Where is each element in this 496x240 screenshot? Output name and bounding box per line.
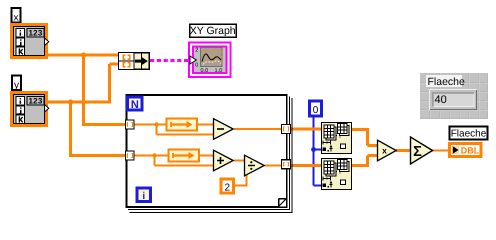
svg-text:XY Graph: XY Graph	[190, 25, 236, 37]
wire: sum to DBL terminal	[432, 150, 449, 152]
svg-text:0: 0	[313, 105, 319, 116]
panel: front panel fragment with grid	[420, 73, 488, 119]
wires: array wires out of loop (3px)	[290, 128, 410, 167]
tunnel: x auto-index (left row1)	[126, 120, 135, 129]
label: Flaeche on panel	[426, 75, 462, 87]
wire: Array Subset 2 to multiply bottom input	[352, 156, 377, 168]
wire: row2 out of loop into Array Subset 2	[290, 164, 321, 167]
svg-text:2: 2	[225, 183, 231, 194]
glyph: bundle arrow	[135, 60, 143, 63]
label: XY Graph	[190, 24, 237, 37]
tunnel: y auto-index (left row2)	[126, 151, 135, 160]
svg-text:x: x	[14, 13, 19, 24]
wire: cluster (magenta dashed) Bundle to XY Graph	[150, 59, 190, 62]
svg-text:x: x	[382, 146, 387, 156]
label: Flaeche terminal label	[450, 127, 488, 140]
tunnel: row1 output (right)	[282, 125, 291, 134]
wire: y array to riser	[48, 101, 111, 104]
junction: loop row1 dot	[154, 122, 158, 126]
wire: Array Subset 1 to multiply top input	[352, 128, 377, 146]
function: Array Subset 1	[322, 123, 352, 154]
tunnel: row2 output (right)	[282, 160, 291, 169]
pin: XY Graph input arrow	[190, 56, 196, 64]
glyph: cluster element top [ ]	[123, 55, 129, 59]
svg-text:y: y	[14, 80, 19, 91]
junction: blue wire branch dot	[311, 147, 316, 152]
indicator: XY Graph terminal icon	[189, 43, 231, 78]
For loop resize page-curl	[279, 199, 287, 207]
pin: y array element-out arrow	[45, 105, 49, 113]
svg-text:Flaeche: Flaeche	[451, 128, 487, 139]
svg-text:i: i	[142, 191, 145, 202]
svg-text:N: N	[131, 99, 139, 111]
For loop shadow line 1	[128, 97, 290, 211]
function: multiply	[378, 140, 397, 161]
wire: x array to Bundle (top input)	[48, 55, 126, 156]
junction: x wire dot	[81, 52, 86, 57]
svg-text:0.0: 0.0	[201, 68, 209, 74]
wire: x array branch down to For-loop left tunnel 1	[82, 55, 126, 125]
control: y array terminal icon	[12, 93, 47, 126]
iteration terminal i	[137, 188, 151, 202]
wire: y array branch down to For-loop left tunnel 2	[69, 102, 126, 156]
svg-text:2: 2	[195, 47, 198, 53]
constant 0	[310, 101, 322, 116]
svg-text:Σ: Σ	[413, 144, 422, 160]
wire: row1 out of loop into Array Subset 1	[290, 128, 321, 131]
svg-text:DBL: DBL	[461, 145, 480, 155]
function: add	[214, 150, 234, 171]
junction: loop row2 dot	[152, 153, 156, 157]
svg-text:123: 123	[29, 97, 43, 106]
function: Bundle node	[119, 53, 150, 70]
feedback node 2 (y previous value)	[169, 150, 200, 162]
function: Add Array Elements (sum)	[411, 137, 433, 164]
junction: y wire dot	[68, 99, 73, 104]
constant 2	[221, 179, 234, 193]
indicator terminal: Flaeche DBL	[450, 144, 482, 157]
wire: loop row1 tunnel to feedback node and subtract	[134, 125, 449, 187]
count terminal N	[128, 97, 143, 110]
structure: For loop frame	[127, 95, 293, 213]
wire: multiply to sum	[396, 149, 410, 152]
svg-text:123: 123	[29, 29, 43, 38]
control: x array terminal icon	[12, 25, 47, 58]
function: subtract	[214, 119, 234, 140]
label: y control label box	[12, 76, 21, 91]
feedback node 1 (x previous value)	[167, 119, 198, 131]
mini plot area	[201, 48, 223, 67]
wire: constant 2 riser to divide	[234, 172, 248, 187]
function: divide	[245, 155, 265, 176]
svg-text:1.0: 1.0	[215, 68, 223, 74]
label: x control label box	[12, 8, 21, 23]
svg-text:Flaeche: Flaeche	[428, 76, 466, 88]
pin: x array element-out arrow	[45, 38, 49, 46]
mini plot curve	[202, 54, 221, 62]
svg-text:40: 40	[435, 94, 447, 106]
For loop shadow line 2	[130, 98, 293, 213]
function: Array Subset 2	[322, 159, 352, 190]
svg-text:0: 0	[195, 63, 198, 69]
indicator: Flaeche numeric display showing 40	[429, 89, 477, 110]
glyph: cluster element bottom [ ]	[123, 63, 129, 67]
wire: loop row2 tunnel to feedback node and add	[134, 155, 213, 157]
wire: 0-constant blue vertical to Array Subset index inputs	[314, 117, 322, 186]
wire: riser up into Bundle bottom input	[110, 64, 120, 104]
